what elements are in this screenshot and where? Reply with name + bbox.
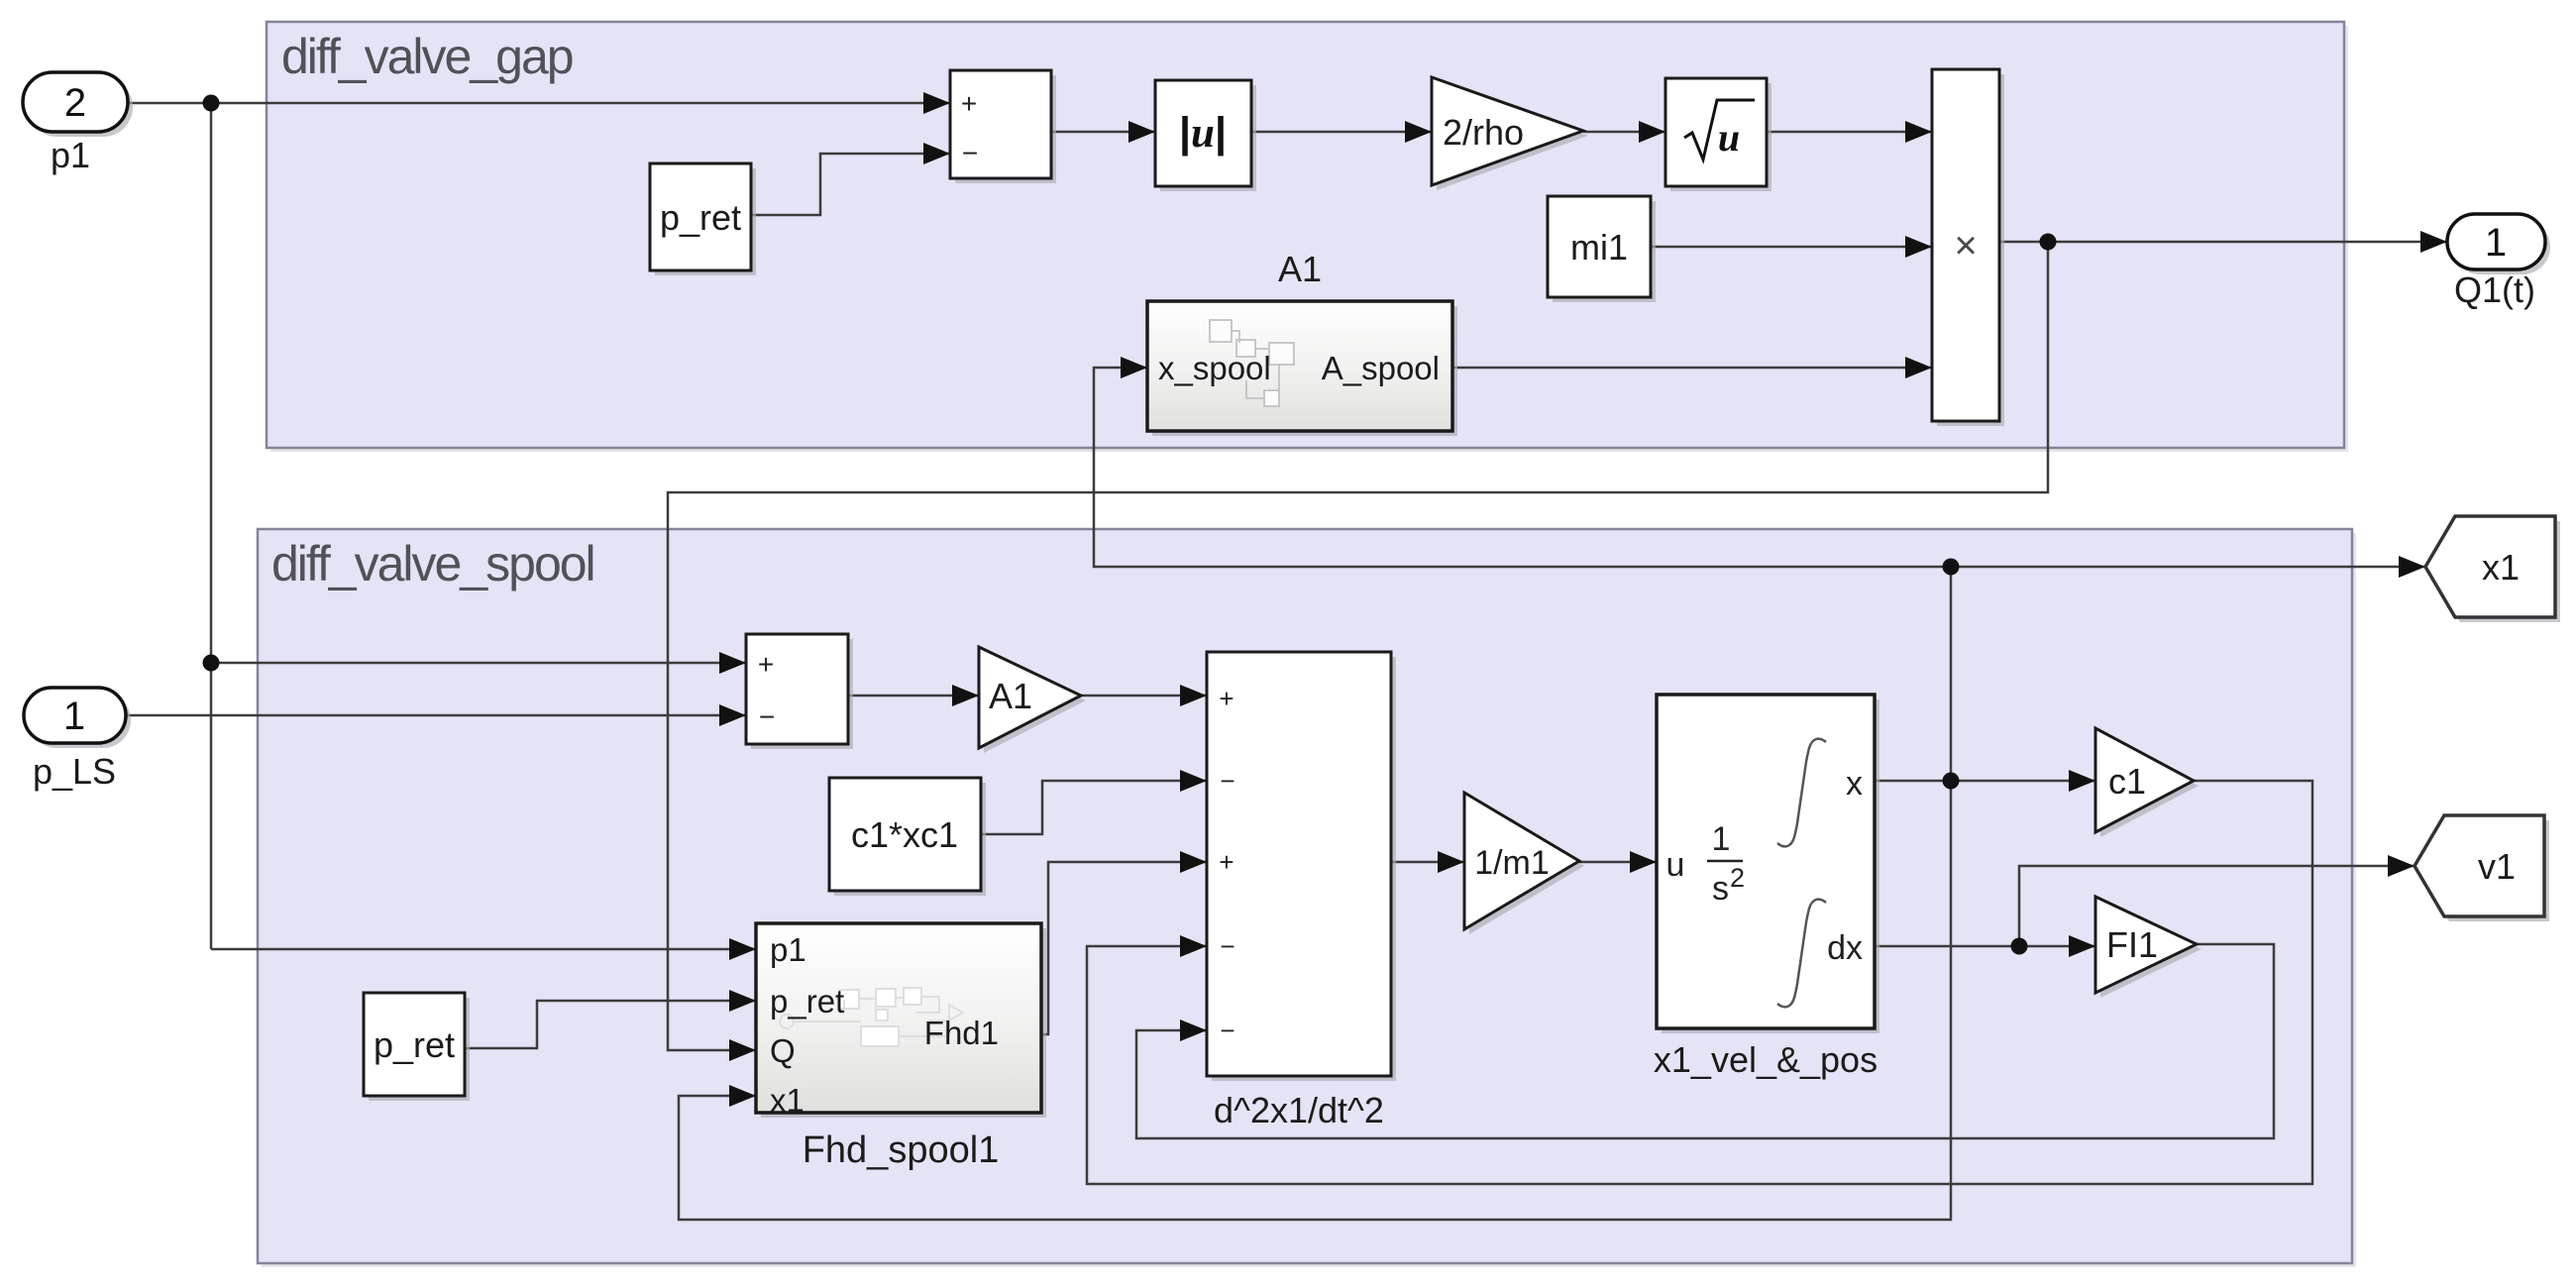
wire Abs to Gain 2/rho bbox=[1251, 131, 1432, 134]
svg-text:p_LS: p_LS bbox=[33, 751, 116, 792]
wire big sum to 1/m1 bbox=[1391, 861, 1464, 864]
block constant mi1 bbox=[1548, 196, 1656, 302]
svg-text:x1_vel_&_pos: x1_vel_&_pos bbox=[1654, 1039, 1878, 1080]
wire FI1 feedback to big sum input5 bbox=[1136, 944, 2274, 1138]
arrow into Abs bbox=[1128, 121, 1155, 143]
svg-text:x1: x1 bbox=[2482, 547, 2520, 588]
block gain 1/m1 bbox=[1464, 793, 1584, 934]
block constant c1*xc1 bbox=[829, 778, 986, 896]
wire p1 vertical trunk bbox=[210, 103, 213, 949]
svg-text:s: s bbox=[1712, 870, 1729, 908]
wire x to x1 port bbox=[1951, 566, 2425, 569]
arrow into Product input3 bbox=[1905, 357, 1932, 378]
svg-text:A_spool: A_spool bbox=[1322, 350, 1440, 386]
svg-text:Q1(t): Q1(t) bbox=[2454, 269, 2535, 310]
arrow into Fhd_spool1 p1 bbox=[729, 938, 756, 960]
svg-text:FI1: FI1 bbox=[2106, 924, 2158, 965]
arrow into FI1 gain bbox=[2069, 935, 2095, 957]
svg-text:p_ret: p_ret bbox=[770, 983, 844, 1020]
svg-text:+: + bbox=[758, 649, 774, 680]
arrow into big sum input5 bbox=[1180, 1020, 1207, 1041]
svg-text:c1*xc1: c1*xc1 bbox=[851, 814, 958, 855]
svg-text:+: + bbox=[1219, 847, 1234, 877]
svg-text:A1: A1 bbox=[989, 676, 1032, 716]
output port x1 bbox=[2425, 516, 2560, 622]
svg-text:p1: p1 bbox=[770, 931, 806, 968]
svg-text:Fhd_spool1: Fhd_spool1 bbox=[803, 1129, 1000, 1171]
wire c1*xc1 to big sum input2 bbox=[981, 781, 1207, 834]
svg-text:2/rho: 2/rho bbox=[1443, 112, 1524, 153]
svg-text:p_ret: p_ret bbox=[374, 1024, 455, 1065]
block gain FI1 bbox=[2095, 897, 2201, 998]
arrow into Sum2 plus bbox=[719, 652, 746, 674]
svg-text:×: × bbox=[1954, 224, 1977, 268]
wire A1 subsystem to Product bbox=[1452, 367, 1932, 370]
block Sum1 bbox=[950, 70, 1056, 183]
block subsystem Fhd_spool1 bbox=[756, 923, 1046, 1119]
arrow into Fhd_spool1 Q bbox=[729, 1039, 756, 1061]
wire p_ret2 to Fhd_spool1 p_ret input bbox=[465, 1001, 756, 1048]
svg-text:v1: v1 bbox=[2478, 846, 2516, 887]
arrow into Sum2 minus bbox=[719, 704, 746, 726]
junction x top bbox=[1943, 559, 1960, 576]
svg-text:x: x bbox=[1846, 765, 1863, 803]
wire c1 feedback to big sum input4 bbox=[1087, 781, 2312, 1184]
svg-text:−: − bbox=[1220, 931, 1234, 961]
svg-text:mi1: mi1 bbox=[1570, 227, 1628, 268]
wire p1 to Sum2 plus bbox=[211, 662, 746, 665]
arrow into big sum input1 bbox=[1180, 685, 1207, 706]
wire x to A1 subsystem input bbox=[1094, 368, 1951, 567]
svg-text:+: + bbox=[961, 88, 977, 119]
wire p1 port to Sum1 plus bbox=[128, 102, 950, 105]
svg-text:2: 2 bbox=[64, 81, 86, 125]
arrow into Q1 port bbox=[2420, 231, 2447, 253]
subsystem area diff_valve_spool bbox=[258, 529, 2356, 1267]
wire mi1 to Product bbox=[1651, 246, 1932, 249]
output port 1 Q1(t) bbox=[2447, 214, 2550, 274]
svg-text:|u|: |u| bbox=[1179, 109, 1227, 157]
svg-text:2: 2 bbox=[1730, 863, 1745, 893]
wire Sum1 to Abs bbox=[1051, 131, 1155, 134]
arrow into Sum1 minus bbox=[923, 143, 950, 164]
arrow into Product input1 bbox=[1905, 121, 1932, 143]
junction dx bbox=[2011, 938, 2028, 955]
arrow into x1 port bbox=[2399, 556, 2425, 578]
arrow into v1 port bbox=[2388, 855, 2415, 877]
arrow into Product input2 bbox=[1905, 236, 1932, 258]
junction p1 mid bbox=[203, 655, 220, 672]
wire Sum2 to A1 gain bbox=[848, 695, 979, 698]
arrow into Fhd_spool1 p_ret bbox=[729, 990, 756, 1012]
svg-text:p_ret: p_ret bbox=[660, 197, 741, 238]
svg-text:1: 1 bbox=[2485, 221, 2507, 265]
arrow into big sum input2 bbox=[1180, 770, 1207, 792]
wire x junction up bbox=[1950, 567, 1953, 781]
svg-text:1: 1 bbox=[63, 695, 85, 738]
svg-text:diff_valve_gap: diff_valve_gap bbox=[281, 29, 573, 84]
wire 2/rho to Sqrt bbox=[1583, 131, 1665, 134]
block Sqrt bbox=[1665, 78, 1771, 191]
arrow into 2/rho bbox=[1405, 121, 1432, 143]
wire Q1 feedback to Fhd_spool1 Q input bbox=[668, 242, 2048, 1050]
block gain c1 bbox=[2095, 728, 2199, 837]
wire integrator dx to FI1 gain bbox=[1875, 945, 2095, 948]
block big sum d^2x1/dt^2 bbox=[1207, 652, 1396, 1081]
wire integrator x to c1 gain bbox=[1875, 780, 2095, 783]
svg-text:c1: c1 bbox=[2108, 761, 2146, 802]
svg-text:1/m1: 1/m1 bbox=[1474, 844, 1550, 882]
svg-text:diff_valve_spool: diff_valve_spool bbox=[271, 536, 594, 591]
arrow into Sqrt bbox=[1639, 121, 1665, 143]
arrow into Fhd_spool1 x1 bbox=[729, 1085, 756, 1107]
block Sum2 bbox=[746, 634, 853, 749]
wire Product to Q1 port bbox=[1999, 241, 2447, 244]
svg-text:Fhd1: Fhd1 bbox=[924, 1015, 999, 1051]
input port 2 p1 bbox=[23, 72, 133, 137]
arrow into big sum input3 bbox=[1180, 851, 1207, 873]
block constant p_ret 2 bbox=[364, 993, 470, 1101]
arrow into big sum input4 bbox=[1180, 935, 1207, 957]
arrow into 1/m1 bbox=[1438, 851, 1464, 873]
block Product bbox=[1932, 69, 2004, 426]
svg-text:1: 1 bbox=[1712, 820, 1731, 858]
svg-text:d^2x1/dt^2: d^2x1/dt^2 bbox=[1214, 1090, 1384, 1130]
output port v1 bbox=[2415, 815, 2549, 921]
junction p1 top bbox=[203, 95, 220, 112]
svg-text:−: − bbox=[1220, 1016, 1234, 1045]
svg-text:−: − bbox=[759, 701, 775, 732]
svg-text:−: − bbox=[1220, 766, 1234, 796]
wire 1/m1 to integrator bbox=[1579, 861, 1657, 864]
subsystem area diff_valve_gap bbox=[267, 22, 2348, 452]
arrow into A1 subsystem bbox=[1121, 357, 1147, 378]
junction Q1 bbox=[2040, 234, 2057, 251]
svg-text:A1: A1 bbox=[1278, 249, 1322, 289]
svg-text:dx: dx bbox=[1827, 929, 1863, 967]
ARROWHEADS bbox=[719, 92, 2447, 1107]
arrow into integrator bbox=[1630, 851, 1657, 873]
input port 1 p_LS bbox=[24, 688, 131, 748]
block Abs |u| bbox=[1155, 80, 1256, 191]
arrow into c1 gain bbox=[2069, 770, 2095, 792]
wire A1 gain to big sum input1 bbox=[1081, 695, 1207, 698]
wire p1 to Fhd_spool1 p1 input bbox=[211, 948, 756, 951]
block constant p_ret 1 bbox=[650, 163, 756, 275]
svg-text:−: − bbox=[962, 138, 978, 168]
wire x feedback to Fhd_spool1 x1 input bbox=[679, 781, 1951, 1220]
wire p_ret1 to Sum1 minus bbox=[751, 154, 950, 215]
wire dx to v1 port bbox=[2019, 866, 2415, 946]
svg-text:u: u bbox=[1718, 115, 1740, 160]
svg-text:x_spool: x_spool bbox=[1158, 350, 1271, 386]
block subsystem A1 x_spool/A_spool bbox=[1147, 301, 1457, 436]
svg-text:x1: x1 bbox=[770, 1082, 805, 1119]
wire Fhd1 output to big sum input3 bbox=[1041, 862, 1207, 1034]
svg-text:+: + bbox=[1219, 684, 1234, 713]
arrow into A1 gain bbox=[952, 685, 979, 706]
wire Sqrt to Product bbox=[1767, 131, 1932, 134]
junction x main bbox=[1943, 773, 1960, 790]
wire p_LS to Sum2 minus bbox=[126, 714, 746, 717]
svg-text:u: u bbox=[1666, 846, 1685, 884]
block gain 2/rho bbox=[1432, 77, 1588, 190]
svg-text:p1: p1 bbox=[51, 135, 90, 175]
block integrator x1_vel_&_pos bbox=[1657, 695, 1879, 1033]
svg-text:Q: Q bbox=[770, 1032, 796, 1069]
block gain A1 bbox=[979, 647, 1086, 753]
arrow into Sum1 plus bbox=[923, 92, 950, 114]
